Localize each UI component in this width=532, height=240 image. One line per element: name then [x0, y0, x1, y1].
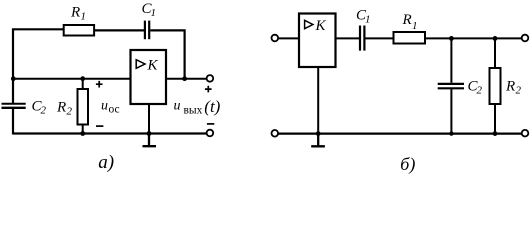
svg-text:2: 2	[67, 106, 73, 118]
svg-text:(t): (t)	[204, 97, 220, 116]
svg-text:R: R	[505, 79, 515, 95]
label - (output minus)	[207, 123, 214, 125]
capacitor C2 (circuit b)	[438, 83, 464, 85]
wire: C2 top stub	[450, 38, 452, 82]
resistor R1	[64, 25, 94, 36]
svg-text:2: 2	[516, 85, 522, 97]
wire: amplifier output to terminal	[166, 78, 207, 80]
svg-text:R: R	[56, 100, 66, 116]
svg-text:u: u	[174, 99, 181, 114]
terminal: output top (circuit b)	[522, 35, 529, 42]
node: amp ground junction	[147, 131, 152, 136]
wire: amplifier output to C1	[336, 37, 360, 39]
wire: R2 bottom stub	[494, 104, 496, 134]
capacitor C1 (circuit b)	[359, 26, 361, 51]
op-amp U1 (amplifier K, circuit a)	[131, 50, 167, 104]
svg-text:1: 1	[81, 11, 87, 23]
node: R2 top junction	[493, 36, 498, 41]
svg-text:б): б)	[400, 154, 415, 175]
wire: bottom rail circuit a	[13, 132, 207, 134]
label + (u_oc plus)	[96, 81, 103, 88]
ground (circuit b)	[311, 134, 325, 147]
svg-text:1: 1	[151, 7, 157, 19]
ground (circuit a)	[143, 134, 157, 147]
node: R2 bottom junction	[493, 131, 498, 136]
wire: left vertical below C2 to bottom rail	[12, 109, 14, 135]
svg-text:а): а)	[98, 152, 114, 173]
terminal: output bottom	[207, 130, 214, 137]
op-amp U2 (amplifier K, circuit b)	[299, 14, 336, 68]
capacitor C1	[144, 21, 146, 40]
svg-text:1: 1	[365, 14, 371, 26]
wire: R2 bottom stub	[82, 125, 84, 134]
resistor R1 (circuit b)	[394, 32, 426, 44]
terminal: input top	[272, 35, 279, 42]
node: R2 bottom junction	[80, 131, 85, 136]
wire: bottom rail circuit b	[278, 133, 521, 135]
wire: top rail left segment (corner to R1)	[13, 29, 65, 103]
resistor R2	[78, 89, 89, 125]
svg-text:K: K	[147, 58, 159, 74]
label + (output plus)	[205, 86, 212, 93]
node: output junction	[182, 76, 187, 81]
terminal: output bottom (circuit b)	[522, 130, 529, 137]
svg-text:1: 1	[412, 20, 418, 32]
node: C2 bottom junction	[449, 131, 453, 135]
wire: R2 top stub	[494, 38, 496, 68]
capacitor C2	[2, 103, 26, 105]
svg-text:ос: ос	[109, 104, 120, 116]
node: junction R2 top	[80, 76, 85, 81]
wire: R1 to output terminal	[425, 37, 522, 39]
label - (u_oc minus)	[96, 125, 103, 127]
svg-text:2: 2	[41, 105, 47, 117]
wire: top rail between R1 and C1	[95, 29, 145, 31]
wire: C1 to R1	[365, 37, 393, 39]
svg-text:2: 2	[477, 85, 483, 97]
svg-text:K: K	[315, 18, 327, 34]
wire: amplifier bottom stub to rail	[148, 104, 150, 134]
resistor R2 (circuit b)	[490, 68, 501, 104]
wire: C2 bottom stub	[450, 89, 452, 133]
node: amp ground junction (circuit b)	[316, 131, 321, 136]
wire: mid wire from left rail to amplifier input	[13, 78, 131, 80]
node: C2 top junction	[449, 36, 454, 41]
wire: top rail from C1 to right corner, down to output node	[150, 30, 184, 78]
svg-text:R: R	[70, 5, 80, 21]
terminal: output top	[207, 75, 214, 82]
wire: input to amplifier	[278, 37, 299, 39]
wire: amplifier bottom stub (circuit b)	[317, 67, 319, 134]
svg-text:R: R	[402, 12, 412, 28]
terminal: input bottom (circuit b)	[272, 130, 279, 137]
node: junction left rail / mid wire	[11, 76, 16, 81]
svg-text:u: u	[101, 99, 108, 114]
svg-text:вых: вых	[184, 105, 203, 117]
wire: R2 top stub	[82, 79, 84, 89]
